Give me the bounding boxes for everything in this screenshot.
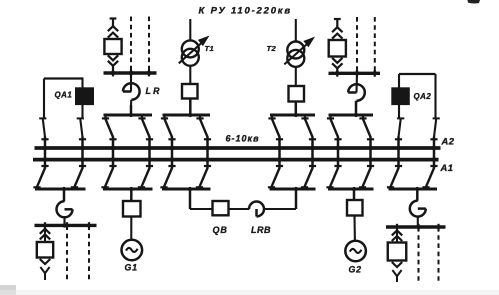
svg-text:T2: T2 (267, 44, 277, 53)
svg-text:LRB: LRB (251, 225, 271, 235)
svg-text:LR: LR (146, 86, 162, 96)
svg-text:К РУ 110-220кв: К РУ 110-220кв (199, 6, 292, 17)
svg-text:A2: A2 (441, 136, 455, 147)
svg-text:6-10кв: 6-10кв (226, 134, 260, 144)
svg-text:A1: A1 (440, 162, 454, 173)
svg-text:G2: G2 (349, 265, 362, 275)
svg-text:QA1: QA1 (55, 91, 73, 100)
svg-text:QB: QB (213, 225, 228, 235)
svg-text:T1: T1 (205, 44, 215, 53)
svg-text:QA2: QA2 (414, 92, 432, 101)
svg-text:G1: G1 (125, 263, 138, 273)
